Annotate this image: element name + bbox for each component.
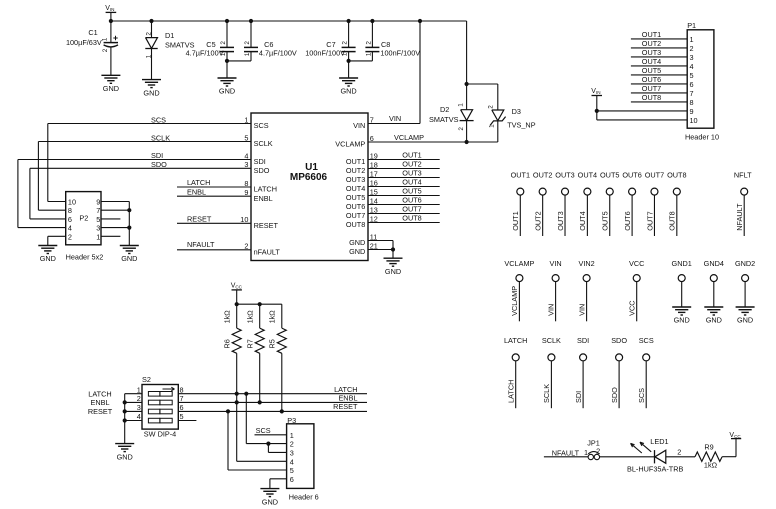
- svg-text:10: 10: [690, 116, 698, 125]
- svg-text:1kΩ: 1kΩ: [222, 310, 231, 324]
- wire OUT5 from U1: [368, 187, 440, 196]
- ground (under D1): [142, 80, 161, 98]
- svg-text:LATCH: LATCH: [254, 185, 277, 194]
- wire OUT2 from U1: [368, 160, 440, 169]
- ground (P2 left): [38, 246, 57, 264]
- test point VCC: [628, 259, 645, 322]
- svg-text:OUT2: OUT2: [402, 160, 421, 169]
- svg-text:R7: R7: [245, 339, 254, 348]
- svg-text:RESET: RESET: [333, 402, 358, 411]
- svg-text:OUT6: OUT6: [622, 170, 641, 179]
- svg-text:OUT8: OUT8: [668, 211, 677, 230]
- svg-text:9: 9: [690, 107, 694, 116]
- svg-text:6: 6: [180, 403, 184, 412]
- svg-text:OUT7: OUT7: [346, 211, 365, 220]
- svg-text:SDO: SDO: [611, 336, 627, 345]
- svg-text:OUT3: OUT3: [556, 211, 565, 230]
- svg-text:VCC: VCC: [231, 283, 243, 290]
- svg-text:SCS: SCS: [637, 388, 646, 403]
- svg-text:2: 2: [690, 44, 694, 53]
- resistor R7 1k (pull-up ENBL): [245, 304, 264, 353]
- svg-text:2: 2: [137, 394, 141, 403]
- svg-text:OUT2: OUT2: [346, 166, 365, 175]
- svg-text:NFLT: NFLT: [734, 170, 752, 179]
- wire OUT4 from U1: [368, 178, 440, 187]
- svg-text:1: 1: [366, 52, 373, 56]
- svg-text:SCS: SCS: [639, 336, 654, 345]
- ground (P2 right): [120, 246, 139, 264]
- svg-text:MP6606: MP6606: [290, 172, 328, 183]
- wire SDO (U1 pin3 to P2 pin6): [30, 160, 251, 219]
- ground (under P3): [260, 489, 279, 507]
- wire OUT3 to P1 pin 3: [631, 48, 687, 57]
- svg-text:1kΩ: 1kΩ: [245, 310, 254, 324]
- svg-text:TVS_NP: TVS_NP: [507, 121, 536, 130]
- svg-text:LED1: LED1: [650, 437, 668, 446]
- svg-text:3: 3: [137, 403, 141, 412]
- test point GND2: [735, 259, 755, 307]
- svg-text:4: 4: [137, 412, 141, 421]
- wire RESET stub at U1 pin10: [177, 215, 251, 224]
- svg-text:OUT1: OUT1: [511, 170, 530, 179]
- svg-text:6: 6: [290, 475, 294, 484]
- svg-text:OUT1: OUT1: [511, 211, 520, 230]
- connector P1 Header 10: [685, 21, 719, 142]
- test point VIN2: [577, 259, 594, 322]
- svg-text:100nF/100V: 100nF/100V: [380, 48, 420, 57]
- power symbol VCC (at R9): [729, 432, 741, 439]
- svg-text:GND2: GND2: [735, 259, 755, 268]
- svg-text:1: 1: [290, 431, 294, 440]
- diode D3 TVS_NP (bidirectional): [488, 105, 536, 142]
- svg-text:OUT2: OUT2: [533, 211, 542, 230]
- capacitor C7 100nF/100V: [305, 21, 355, 61]
- wire LATCH net (bottom): [178, 385, 367, 396]
- ground (under GND1): [672, 307, 691, 325]
- svg-text:OUT8: OUT8: [402, 214, 421, 223]
- svg-text:OUT4: OUT4: [578, 211, 587, 230]
- wire OUT7 to P1 pin 7: [631, 84, 687, 93]
- wire OUT4 to P1 pin 4: [631, 57, 687, 66]
- svg-text:10: 10: [68, 198, 76, 207]
- svg-text:SDO: SDO: [254, 166, 270, 175]
- svg-text:OUT1: OUT1: [402, 151, 421, 160]
- svg-text:SDI: SDI: [574, 391, 583, 403]
- resistor R6 1k (pull-up LATCH): [222, 304, 241, 353]
- svg-text:6: 6: [690, 80, 694, 89]
- svg-text:VCC: VCC: [729, 432, 741, 439]
- wire ENBL stub at U1 pin9: [177, 187, 251, 196]
- svg-text:OUT4: OUT4: [578, 170, 597, 179]
- svg-text:OUT2: OUT2: [533, 170, 552, 179]
- svg-text:SCLK: SCLK: [151, 133, 170, 142]
- svg-text:VIN: VIN: [353, 121, 365, 130]
- svg-text:1kΩ: 1kΩ: [267, 310, 276, 324]
- svg-text:VIN: VIN: [105, 5, 114, 12]
- wire OUT7 from U1: [368, 205, 440, 214]
- svg-text:3: 3: [96, 224, 100, 233]
- test point OUT2: [533, 170, 552, 236]
- wire SCLK (U1 pin5 to P2 pin8): [38, 133, 251, 210]
- svg-text:1: 1: [220, 52, 227, 56]
- svg-text:R9: R9: [704, 442, 713, 451]
- wire P2 pins 9/7/3 ground bus: [127, 202, 131, 246]
- resistor R9 1k: [695, 442, 722, 469]
- svg-text:NFAULT: NFAULT: [187, 240, 215, 249]
- svg-text:1: 1: [342, 52, 349, 56]
- test point SDI: [574, 336, 589, 408]
- svg-text:GND: GND: [674, 316, 690, 325]
- svg-text:LATCH: LATCH: [88, 389, 111, 398]
- svg-text:GND: GND: [340, 87, 356, 96]
- svg-text:3: 3: [690, 53, 694, 62]
- svg-text:VIN: VIN: [550, 259, 562, 268]
- svg-text:4: 4: [690, 62, 694, 71]
- svg-text:VCLAMP: VCLAMP: [504, 259, 534, 268]
- ground (under S2): [115, 444, 134, 462]
- svg-text:OUT3: OUT3: [402, 169, 421, 178]
- svg-text:GND: GND: [706, 316, 722, 325]
- svg-text:2: 2: [68, 232, 72, 241]
- svg-text:OUT8: OUT8: [667, 170, 686, 179]
- wire U1 GND pins 11/21 to ground: [368, 241, 395, 259]
- svg-text:8: 8: [180, 385, 184, 394]
- svg-text:2: 2: [290, 440, 294, 449]
- svg-text:1: 1: [96, 232, 100, 241]
- svg-text:GND1: GND1: [672, 259, 692, 268]
- svg-text:OUT2: OUT2: [642, 39, 661, 48]
- svg-text:SDI: SDI: [577, 336, 589, 345]
- wire P2 pin2 to ground: [48, 236, 66, 245]
- power symbol VIN (at P1): [591, 88, 602, 95]
- wire LATCH stub at U1 pin8: [177, 178, 251, 187]
- svg-text:Header 5x2: Header 5x2: [66, 253, 104, 262]
- svg-text:3: 3: [290, 448, 294, 457]
- svg-text:OUT1: OUT1: [642, 30, 661, 39]
- wire OUT6 from U1: [368, 196, 440, 205]
- svg-text:1: 1: [244, 52, 251, 56]
- svg-text:D3: D3: [512, 107, 521, 116]
- ground (under C1): [101, 75, 120, 93]
- svg-text:VCLAMP: VCLAMP: [394, 133, 424, 142]
- svg-text:LATCH: LATCH: [507, 380, 516, 403]
- test point OUT5: [600, 170, 619, 236]
- wire R7 bottom to ENBL: [258, 353, 262, 404]
- svg-text:D2: D2: [440, 105, 449, 114]
- wire rail branch to D3: [467, 84, 498, 110]
- svg-text:VIN: VIN: [546, 304, 555, 316]
- svg-text:1: 1: [457, 103, 464, 107]
- svg-text:5: 5: [180, 412, 184, 421]
- svg-text:SCS: SCS: [254, 121, 269, 130]
- svg-text:VIN: VIN: [389, 114, 401, 123]
- test point OUT8: [667, 170, 686, 236]
- svg-text:NFAULT: NFAULT: [552, 448, 580, 457]
- test point GND4: [704, 259, 724, 307]
- ground (under GND2): [736, 307, 755, 325]
- svg-text:C1: C1: [88, 28, 97, 37]
- svg-text:SDI: SDI: [151, 151, 163, 160]
- svg-text:6: 6: [68, 215, 72, 224]
- wire VCC to R6/R7/R5 tops: [235, 302, 282, 306]
- svg-text:GND: GND: [737, 316, 753, 325]
- svg-text:100nF/100V: 100nF/100V: [305, 48, 345, 57]
- ground (U1): [384, 258, 403, 276]
- svg-text:ENBL: ENBL: [187, 187, 206, 196]
- svg-text:2: 2: [102, 48, 109, 52]
- test point OUT3: [555, 170, 574, 236]
- svg-text:SMATVS: SMATVS: [429, 115, 459, 124]
- svg-text:OUT4: OUT4: [642, 57, 661, 66]
- svg-text:5: 5: [290, 466, 294, 475]
- svg-text:2: 2: [244, 41, 251, 45]
- wire SCS (U1 pin1 to P2 pin10): [48, 115, 251, 201]
- svg-text:SDO: SDO: [610, 387, 619, 403]
- wire LED1 to R9: [666, 456, 695, 458]
- svg-text:OUT6: OUT6: [402, 196, 421, 205]
- LED LED1 BL-HUF35A-TRB: [627, 437, 683, 474]
- svg-text:6: 6: [370, 134, 374, 143]
- svg-text:1: 1: [584, 448, 588, 457]
- wire OUT8 to P1 pin 8: [631, 93, 687, 102]
- svg-text:SCS: SCS: [256, 426, 271, 435]
- svg-text:4: 4: [290, 457, 294, 466]
- test point NFLT: [734, 170, 752, 236]
- wire JP1 to LED1: [600, 456, 655, 458]
- svg-text:LATCH: LATCH: [504, 336, 527, 345]
- svg-text:4.7µF/100V: 4.7µF/100V: [259, 48, 297, 57]
- switch S2 SW DIP-4: [137, 375, 184, 439]
- wire R6 bottom through LATCH/ENBL to P3 pin 4: [235, 353, 287, 461]
- svg-text:OUT5: OUT5: [642, 66, 661, 75]
- svg-text:2: 2: [458, 127, 465, 131]
- svg-text:OUT3: OUT3: [346, 175, 365, 184]
- svg-text:1: 1: [102, 37, 109, 41]
- wire OUT1 to P1 pin 1: [631, 30, 687, 39]
- svg-text:NFAULT: NFAULT: [735, 203, 744, 231]
- power symbol VCC (above pull-up resistors): [231, 283, 243, 305]
- svg-text:VCC: VCC: [628, 300, 637, 315]
- svg-text:7: 7: [180, 394, 184, 403]
- svg-text:GND4: GND4: [704, 259, 724, 268]
- wire NFAULT net to JP1: [544, 448, 588, 457]
- svg-text:OUT3: OUT3: [555, 170, 574, 179]
- svg-text:1: 1: [690, 35, 694, 44]
- test point SCLK: [542, 336, 561, 408]
- diode D1 SMATVS: [145, 21, 194, 80]
- test point OUT7: [645, 170, 664, 236]
- svg-text:SCLK: SCLK: [542, 384, 551, 403]
- wire SDI (U1 pin4 to P2 pin4): [18, 151, 251, 228]
- svg-text:VIN: VIN: [577, 304, 586, 316]
- svg-text:D1: D1: [165, 31, 174, 40]
- wire NFAULT stub at U1 pin2: [177, 240, 251, 250]
- svg-text:GND: GND: [143, 88, 159, 97]
- test point OUT6: [622, 170, 641, 236]
- jumper JP1: [587, 438, 600, 459]
- test point VIN: [546, 259, 561, 322]
- svg-text:GND: GND: [349, 247, 365, 256]
- svg-text:P1: P1: [687, 21, 696, 30]
- svg-text:2: 2: [220, 41, 227, 45]
- wire VCLAMP net: [368, 133, 498, 144]
- wire RESET net (bottom): [178, 402, 367, 414]
- svg-text:7: 7: [370, 115, 374, 124]
- svg-text:SCLK: SCLK: [254, 139, 273, 148]
- wire OUT8 from U1: [368, 214, 440, 223]
- svg-text:OUT1: OUT1: [346, 157, 365, 166]
- svg-text:OUT5: OUT5: [346, 193, 365, 202]
- wire VIN top rail: [109, 19, 469, 110]
- svg-text:OUT5: OUT5: [402, 187, 421, 196]
- svg-text:GND: GND: [219, 87, 235, 96]
- svg-text:RESET: RESET: [187, 215, 212, 224]
- svg-text:OUT7: OUT7: [645, 211, 654, 230]
- svg-text:4.7µF/100V: 4.7µF/100V: [186, 48, 224, 57]
- svg-text:P2: P2: [79, 214, 88, 223]
- IC U1 MP6606: [240, 113, 378, 261]
- svg-text:VIN2: VIN2: [578, 259, 594, 268]
- svg-text:ENBL: ENBL: [90, 398, 109, 407]
- ground (under GND4): [704, 307, 723, 325]
- test point OUT1: [511, 170, 530, 236]
- capacitor C5 4.7uF/100V: [186, 21, 234, 61]
- ground (under C5/C6): [218, 78, 237, 96]
- resistor R5 1k (pull-up RESET): [267, 304, 286, 353]
- svg-text:2: 2: [677, 448, 681, 457]
- test point SCS: [637, 336, 654, 408]
- svg-text:BL-HUF35A-TRB: BL-HUF35A-TRB: [627, 465, 683, 474]
- test point VCLAMP: [504, 259, 534, 322]
- svg-text:VCLAMP: VCLAMP: [510, 286, 519, 316]
- svg-text:Header 10: Header 10: [685, 132, 719, 141]
- svg-text:GND: GND: [121, 254, 137, 263]
- wire C7/C8 bottoms to ground: [347, 59, 373, 78]
- svg-text:RESET: RESET: [88, 407, 113, 416]
- svg-text:8: 8: [68, 206, 72, 215]
- svg-text:OUT8: OUT8: [346, 220, 365, 229]
- svg-text:OUT7: OUT7: [402, 205, 421, 214]
- wire OUT2 to P1 pin 2: [631, 39, 687, 48]
- svg-text:1kΩ: 1kΩ: [704, 461, 718, 470]
- svg-text:8: 8: [690, 98, 694, 107]
- svg-text:GND: GND: [103, 84, 119, 93]
- wire C5/C6 bottoms to ground: [225, 59, 251, 78]
- wire S2 pin5 stub: [178, 420, 196, 422]
- svg-text:OUT8: OUT8: [642, 93, 661, 102]
- svg-text:VCLAMP: VCLAMP: [335, 140, 365, 149]
- test point SDO: [610, 336, 627, 408]
- svg-text:SCS: SCS: [151, 115, 166, 124]
- wire RESET drop to P3 pin5: [228, 411, 287, 470]
- wire P3 pin6 to ground: [270, 479, 287, 489]
- svg-text:ENBL: ENBL: [254, 194, 273, 203]
- wire SCS to P3 pin1: [255, 426, 287, 435]
- svg-text:7: 7: [96, 206, 100, 215]
- svg-text:OUT6: OUT6: [623, 211, 632, 230]
- svg-text:5: 5: [96, 215, 100, 224]
- svg-text:OUT6: OUT6: [346, 202, 365, 211]
- svg-text:OUT7: OUT7: [642, 84, 661, 93]
- wire ENBL net (bottom): [178, 393, 367, 402]
- wire VIN to P1 pins 9/10: [595, 96, 688, 120]
- svg-text:OUT5: OUT5: [601, 211, 610, 230]
- diode D2 SMATVS: [429, 103, 474, 142]
- svg-text:2: 2: [342, 41, 349, 45]
- wire R5 bottom to RESET: [280, 353, 284, 413]
- svg-text:GND: GND: [40, 254, 56, 263]
- wire LATCH drop to P3 pin2/pin3: [246, 394, 286, 453]
- svg-text:5: 5: [690, 71, 694, 80]
- svg-text:SDI: SDI: [254, 157, 266, 166]
- svg-text:7: 7: [690, 89, 694, 98]
- svg-text:OUT7: OUT7: [645, 170, 664, 179]
- capacitor C6 4.7uF/100V: [244, 21, 297, 61]
- wire VIN rail drop to U1 pin 7: [368, 21, 420, 124]
- svg-text:GND: GND: [349, 238, 365, 247]
- connector P2 Header 5x2: [66, 192, 130, 262]
- svg-text:9: 9: [96, 198, 100, 207]
- svg-text:SCLK: SCLK: [542, 336, 561, 345]
- svg-text:1: 1: [489, 124, 496, 128]
- svg-text:nFAULT: nFAULT: [254, 247, 281, 256]
- svg-text:GND: GND: [385, 267, 401, 276]
- svg-text:R5: R5: [267, 339, 276, 348]
- svg-text:Header 6: Header 6: [289, 493, 319, 502]
- svg-text:1: 1: [145, 54, 152, 58]
- connector P3 Header 6: [287, 416, 319, 502]
- svg-text:R6: R6: [222, 339, 231, 348]
- svg-text:4: 4: [68, 224, 72, 233]
- svg-text:LATCH: LATCH: [187, 178, 210, 187]
- svg-text:SW DIP-4: SW DIP-4: [144, 430, 176, 439]
- svg-text:VIN: VIN: [591, 88, 600, 95]
- svg-text:OUT4: OUT4: [402, 178, 421, 187]
- svg-text:OUT4: OUT4: [346, 184, 365, 193]
- wire OUT6 to P1 pin 6: [631, 75, 687, 84]
- capacitor C1 100uF/63V (polarized): [66, 21, 118, 75]
- ground (under C7/C8): [339, 78, 358, 96]
- svg-text:2: 2: [596, 447, 600, 456]
- svg-text:RESET: RESET: [254, 221, 279, 230]
- wire R9 to VCC: [722, 439, 736, 457]
- capacitor C8 100nF/100V: [365, 21, 420, 61]
- svg-text:GND: GND: [117, 452, 133, 461]
- svg-text:S2: S2: [142, 375, 151, 384]
- svg-text:VCC: VCC: [629, 259, 644, 268]
- svg-text:SDO: SDO: [151, 160, 167, 169]
- wire OUT5 to P1 pin 5: [631, 66, 687, 75]
- wire OUT3 from U1: [368, 169, 440, 178]
- svg-text:2: 2: [145, 32, 152, 36]
- test point GND1: [672, 259, 692, 307]
- svg-text:2: 2: [488, 105, 495, 109]
- svg-text:P3: P3: [287, 416, 296, 425]
- svg-text:1: 1: [137, 385, 141, 394]
- test point OUT4: [578, 170, 597, 236]
- power symbol VIN (top-left supply flag): [105, 5, 116, 21]
- svg-text:GND: GND: [262, 497, 278, 506]
- wire S2 pins 1-4 to ground bus: [88, 389, 142, 443]
- svg-text:100µF/63V: 100µF/63V: [66, 38, 102, 47]
- svg-text:OUT6: OUT6: [642, 75, 661, 84]
- svg-text:OUT3: OUT3: [642, 48, 661, 57]
- test point LATCH: [504, 336, 527, 408]
- wire OUT1 from U1: [368, 151, 440, 160]
- svg-text:OUT5: OUT5: [600, 170, 619, 179]
- svg-text:2: 2: [366, 41, 373, 45]
